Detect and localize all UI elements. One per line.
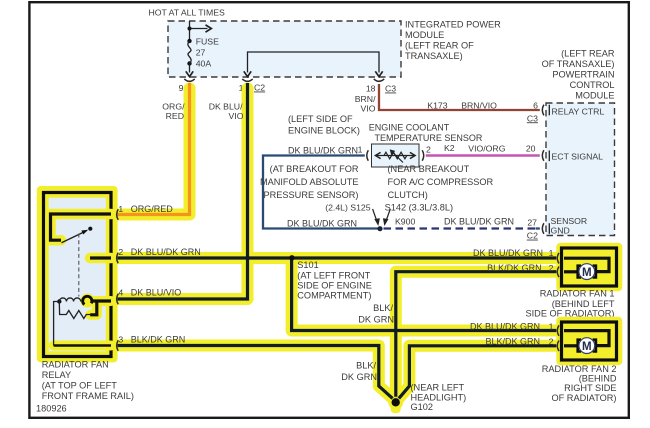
svg-text:(LEFT REAR: (LEFT REAR (561, 49, 615, 59)
svg-text:CONTROL: CONTROL (570, 80, 615, 90)
fan 2 connector pin 1 (557, 325, 559, 336)
splice S125/S142 junction (377, 226, 382, 231)
relay connector pin 4 (117, 294, 119, 305)
svg-text:HEADLIGHT): HEADLIGHT) (411, 393, 467, 403)
svg-text:ORG/: ORG/ (162, 102, 185, 112)
wire ORG/RED core (113, 83, 190, 215)
fan 2 motor (578, 340, 581, 352)
svg-text:DK BLU/DK GRN: DK BLU/DK GRN (470, 322, 540, 332)
svg-text:RELAY CTRL: RELAY CTRL (552, 107, 605, 117)
wire S101 to fan 2 pin 1 highlight (292, 258, 562, 331)
svg-text:1: 1 (358, 144, 363, 154)
svg-text:VIO: VIO (229, 111, 244, 121)
svg-text:G102: G102 (411, 402, 433, 412)
svg-text:INTEGRATED POWER: INTEGRATED POWER (405, 20, 501, 30)
svg-text:PRESSURE SENSOR): PRESSURE SENSOR) (264, 190, 359, 200)
fan 1 motor (578, 266, 581, 278)
PCM pin tick relay ctrl (548, 105, 550, 116)
svg-text:(NEAR BREAKOUT: (NEAR BREAKOUT (388, 164, 470, 174)
IPM internal bus wire (244, 52, 383, 77)
svg-text:GND: GND (551, 225, 570, 235)
svg-text:2: 2 (549, 263, 554, 273)
svg-text:POWERTRAIN: POWERTRAIN (552, 70, 614, 80)
connector pin 18 C3 (374, 79, 384, 81)
wire relay pin 3 core BLK/DK GRN (113, 346, 393, 399)
fan 1 internal wiring (564, 258, 609, 271)
ECT pin 2 connector (422, 150, 424, 160)
relay connector pin 2 (117, 253, 119, 264)
svg-text:20: 20 (526, 144, 536, 154)
wire DK BLU/DK GRN (ECT pin 1 to splice) (263, 156, 378, 229)
svg-text:1: 1 (118, 204, 123, 214)
radiator fan relay box (37, 186, 118, 362)
svg-text:RELAY: RELAY (42, 370, 71, 380)
wire K900 dashed DK BLU/DK GRN to PCM pin 27 (384, 227, 538, 229)
svg-text:MODULE: MODULE (405, 30, 444, 40)
svg-text:C2: C2 (527, 231, 538, 241)
svg-text:4: 4 (118, 287, 123, 297)
ground G102 (392, 398, 400, 406)
svg-text:FRONT FRAME RAIL): FRONT FRAME RAIL) (42, 391, 134, 401)
svg-text:C2: C2 (254, 83, 265, 93)
svg-text:DK BLU/DK GRN: DK BLU/DK GRN (287, 218, 357, 228)
svg-text:DK GRN: DK GRN (358, 314, 394, 324)
svg-text:C3: C3 (385, 84, 396, 94)
svg-text:18: 18 (366, 84, 376, 94)
connector pin 1 C2 (242, 79, 252, 81)
svg-text:RADIATOR FAN: RADIATOR FAN (42, 360, 109, 370)
svg-text:DK BLU/DK GRN: DK BLU/DK GRN (288, 145, 358, 155)
svg-text:OF TRANSAXLE): OF TRANSAXLE) (542, 59, 615, 69)
svg-text:2: 2 (549, 336, 554, 346)
fan 2 internal wiring (564, 331, 609, 346)
wire K173 BRN/VIO (pin 18 to PCM relay ctrl) (379, 84, 540, 110)
splice S101 (289, 255, 294, 260)
svg-text:RADIATOR FAN 2: RADIATOR FAN 2 (542, 364, 617, 374)
svg-text:27: 27 (527, 217, 537, 227)
svg-text:DK BLU/DK GRN: DK BLU/DK GRN (473, 248, 543, 258)
svg-text:(NEAR LEFT: (NEAR LEFT (411, 383, 465, 393)
svg-text:BLK/DK GRN: BLK/DK GRN (485, 336, 540, 346)
svg-text:ENGINE COOLANT: ENGINE COOLANT (369, 123, 450, 133)
svg-text:S101: S101 (297, 260, 318, 270)
svg-text:(AT LEFT FRONT: (AT LEFT FRONT (297, 270, 370, 280)
wire S101 to fan 2 pin 1 core DK BLU/DK GRN (292, 258, 562, 331)
svg-text:ORG/RED: ORG/RED (131, 204, 174, 214)
svg-text:3: 3 (118, 335, 123, 345)
svg-text:(2.4L) S125: (2.4L) S125 (325, 202, 371, 212)
fan 2 connector pin 2 (557, 341, 559, 352)
wire relay pin 3 BLK/DK GRN to G102 highlight (113, 346, 393, 399)
svg-text:DK BLU/: DK BLU/ (209, 102, 243, 112)
radiator fan 2 (556, 317, 622, 365)
svg-text:C3: C3 (527, 113, 538, 123)
svg-text:2: 2 (426, 144, 431, 154)
svg-text:6: 6 (533, 100, 538, 110)
wire fan 2 pin 2 BLK/DK GRN to G102 highlight (399, 346, 562, 399)
wire DK BLU/VIO highlight (pin 1 C2 to relay pin 4) (113, 89, 248, 300)
svg-text:27: 27 (196, 48, 206, 58)
fan 1 connector pin 1 (557, 253, 559, 264)
svg-text:(LEFT SIDE OF: (LEFT SIDE OF (288, 114, 353, 124)
relay connector pin 3 (117, 340, 119, 351)
svg-text:180926: 180926 (36, 404, 67, 414)
radiator fan 1 (556, 243, 622, 291)
wire relay pin 2 to fan 1 core DK BLU/DK GRN (113, 256, 562, 259)
svg-text:(AT BREAKOUT FOR: (AT BREAKOUT FOR (270, 164, 359, 174)
wire ORG/RED highlight (pin 9 to relay pin 1) (113, 89, 190, 215)
svg-text:DK GRN: DK GRN (341, 372, 377, 382)
svg-text:TRANSAXLE): TRANSAXLE) (405, 51, 463, 61)
svg-text:(AT TOP OF LEFT: (AT TOP OF LEFT (42, 381, 118, 391)
integrated power module box (168, 21, 401, 77)
svg-text:VIO/ORG: VIO/ORG (468, 143, 505, 153)
relay internal highlight (51, 214, 112, 240)
svg-text:2: 2 (118, 247, 123, 257)
svg-text:ECT SIGNAL: ECT SIGNAL (552, 152, 604, 162)
svg-text:BRN/VIO: BRN/VIO (461, 100, 497, 110)
svg-text:RIGHT SIDE: RIGHT SIDE (564, 383, 616, 393)
svg-text:M: M (582, 267, 592, 279)
svg-text:MODULE: MODULE (575, 91, 614, 101)
svg-text:DK BLU/DK GRN: DK BLU/DK GRN (131, 247, 201, 257)
relay switch to coil dashed link (78, 234, 80, 297)
fan 1 connector pin 2 (557, 267, 559, 278)
PCM pin tick sensor gnd (548, 223, 550, 234)
wire relay pin 2 to S101 to fan 1 pin 1 highlight (113, 252, 562, 264)
svg-text:9: 9 (179, 83, 184, 93)
engine coolant temperature sensor (372, 144, 420, 167)
svg-text:FOR A/C COMPRESSOR: FOR A/C COMPRESSOR (388, 177, 494, 187)
relay resistor (59, 302, 90, 319)
svg-text:RADIATOR FAN 1: RADIATOR FAN 1 (540, 289, 615, 299)
svg-text:DK BLU/DK GRN: DK BLU/DK GRN (444, 216, 514, 226)
svg-text:RED: RED (166, 111, 184, 121)
svg-text:40A: 40A (196, 59, 212, 69)
svg-text:HOT AT ALL TIMES: HOT AT ALL TIMES (149, 8, 225, 18)
wire K2 VIO/ORG (ECT pin 2 to PCM ect signal) (426, 154, 540, 157)
svg-text:BLK/DK GRN: BLK/DK GRN (131, 335, 186, 345)
ECT pin 1 connector (367, 150, 369, 160)
svg-text:1: 1 (549, 248, 554, 258)
svg-text:VIO: VIO (361, 103, 376, 113)
ground G102 highlight halo (388, 395, 403, 410)
wire fan 1 pin 2 core BLK/DK GRN (396, 272, 562, 397)
svg-text:K2: K2 (444, 143, 455, 153)
svg-text:S142 (3.3L/3.8L): S142 (3.3L/3.8L) (385, 202, 453, 212)
powertrain control module box (546, 103, 615, 236)
svg-text:1: 1 (549, 322, 554, 332)
svg-text:(BEHIND: (BEHIND (579, 374, 617, 384)
svg-text:ENGINE BLOCK): ENGINE BLOCK) (288, 126, 360, 136)
svg-text:COMPARTMENT): COMPARTMENT) (297, 291, 371, 301)
relay switch contact (pin 1) (51, 214, 112, 240)
svg-text:OF RADIATOR): OF RADIATOR) (552, 393, 617, 403)
fuse F27 40A (186, 21, 212, 77)
svg-text:DK BLU/VIO: DK BLU/VIO (131, 287, 182, 297)
connector pin 9 (184, 79, 194, 81)
svg-text:TEMPERATURE SENSOR: TEMPERATURE SENSOR (375, 133, 483, 143)
svg-text:BLK/DK GRN: BLK/DK GRN (487, 263, 542, 273)
relay coil (57, 299, 61, 303)
svg-text:(LEFT REAR OF: (LEFT REAR OF (405, 41, 474, 51)
svg-text:BLK/: BLK/ (373, 303, 393, 313)
svg-text:CLUTCH): CLUTCH) (388, 190, 428, 200)
wire fan 2 pin 2 core BLK/DK GRN (399, 346, 562, 399)
wire fan 1 pin 2 BLK/DK GRN to G102 highlight (396, 272, 562, 397)
relay pin 2 stub (90, 256, 111, 259)
svg-text:SIDE OF ENGINE: SIDE OF ENGINE (297, 281, 372, 291)
svg-text:K900: K900 (395, 216, 415, 226)
wire DK BLU/VIO core (113, 83, 248, 299)
svg-text:FUSE: FUSE (196, 37, 219, 47)
svg-text:BLK/: BLK/ (356, 360, 376, 370)
svg-text:K173: K173 (427, 100, 447, 110)
S125 arrow (373, 209, 377, 221)
relay coil to pin 3 wire (54, 302, 58, 346)
svg-text:M: M (582, 341, 592, 353)
svg-text:MANIFOLD ABSOLUTE: MANIFOLD ABSOLUTE (260, 177, 359, 187)
relay switch arm (62, 231, 86, 243)
PCM pin tick ect signal (548, 151, 550, 162)
S142 arrow (386, 209, 390, 221)
relay connector pin 1 (117, 209, 119, 220)
